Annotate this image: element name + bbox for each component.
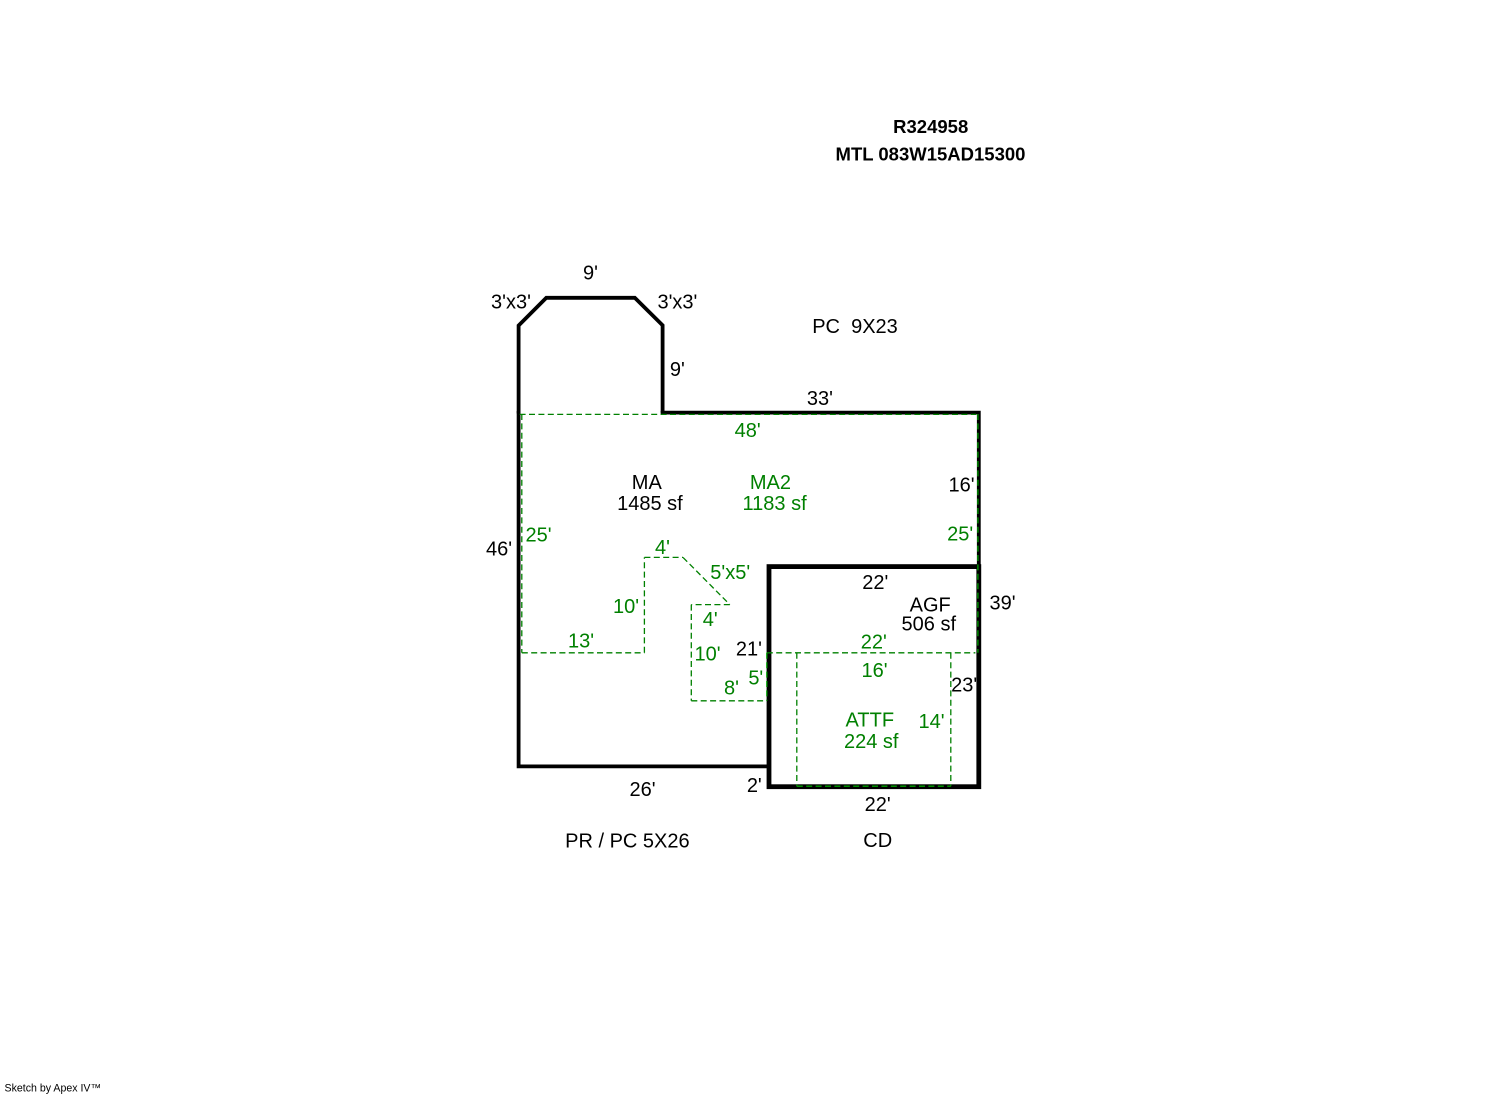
svg-text:MA2: MA2	[750, 472, 791, 494]
ATTF dashed area: right edge 14'	[950, 653, 952, 786]
svg-text:PC 9X23: PC 9X23	[812, 316, 898, 338]
MA2 dashed boundary: left edge 25'	[521, 414, 523, 653]
svg-text:23': 23'	[951, 674, 977, 696]
svg-text:MTL 083W15AD15300: MTL 083W15AD15300	[836, 143, 1026, 164]
svg-text:39': 39'	[989, 593, 1015, 615]
svg-text:9': 9'	[583, 262, 598, 284]
svg-text:3'x3': 3'x3'	[657, 292, 697, 314]
svg-text:10': 10'	[695, 644, 721, 666]
svg-text:9': 9'	[670, 359, 685, 381]
svg-text:5': 5'	[748, 667, 763, 689]
svg-text:224 sf: 224 sf	[844, 731, 899, 753]
MA2 dashed boundary: right edge 25'	[977, 414, 979, 653]
svg-text:16': 16'	[861, 660, 887, 682]
MA2 dashed boundary: 4' segment	[644, 556, 683, 558]
svg-text:10': 10'	[613, 596, 639, 618]
svg-text:PR / PC 5X26: PR / PC 5X26	[565, 830, 690, 852]
main dwelling left and bottom walls	[519, 411, 769, 766]
svg-text:1183 sf: 1183 sf	[743, 493, 808, 515]
svg-text:22': 22'	[862, 572, 888, 594]
MA2 dashed boundary: 8' segment	[691, 700, 767, 702]
svg-text:46': 46'	[486, 538, 512, 560]
svg-text:48': 48'	[735, 420, 761, 442]
MA2 dashed boundary: 5'x5' diagonal	[683, 557, 730, 604]
AGF garage outline	[769, 567, 979, 787]
svg-text:22': 22'	[861, 632, 887, 654]
svg-text:5'x5': 5'x5'	[710, 562, 750, 584]
svg-text:26': 26'	[629, 779, 655, 801]
svg-text:CD: CD	[863, 830, 892, 852]
svg-text:22': 22'	[865, 794, 891, 816]
svg-text:16': 16'	[949, 474, 975, 496]
svg-text:2': 2'	[747, 775, 762, 797]
svg-text:14': 14'	[918, 711, 944, 733]
MA2 dashed boundary: 13' segment	[522, 652, 645, 654]
MA2 dashed boundary: 5' segment on garage wall	[766, 653, 768, 701]
svg-text:13': 13'	[568, 631, 594, 653]
svg-text:21': 21'	[736, 639, 762, 661]
svg-text:R324958: R324958	[893, 116, 968, 137]
MA2 dashed boundary: 10' segment down	[690, 605, 692, 701]
svg-text:25': 25'	[525, 525, 551, 547]
svg-text:3'x3': 3'x3'	[491, 292, 531, 314]
svg-text:25': 25'	[947, 523, 973, 545]
MA2 dashed boundary: 22' segment across garage	[767, 652, 976, 654]
svg-text:506 sf: 506 sf	[902, 614, 957, 636]
svg-text:Sketch by Apex IV™: Sketch by Apex IV™	[5, 1083, 102, 1094]
svg-text:1485 sf: 1485 sf	[617, 493, 683, 515]
svg-text:8': 8'	[724, 678, 739, 700]
MA2 dashed boundary: 10' segment up	[643, 557, 645, 652]
ATTF dashed area: bottom 16'	[797, 785, 951, 787]
MA2 dashed boundary: 4' segment lower	[691, 604, 730, 606]
svg-text:MA: MA	[632, 472, 663, 494]
svg-text:4': 4'	[703, 609, 718, 631]
svg-text:ATTF: ATTF	[846, 710, 895, 732]
porch outline (open covered porch, top-left, clipped corners)	[519, 298, 663, 414]
MA2 dashed boundary: top edge 48'	[520, 413, 976, 415]
svg-text:4': 4'	[655, 537, 670, 559]
ATTF dashed area: left edge 14'	[796, 653, 798, 786]
svg-text:33': 33'	[807, 388, 833, 410]
main dwelling top and right walls	[661, 413, 979, 567]
